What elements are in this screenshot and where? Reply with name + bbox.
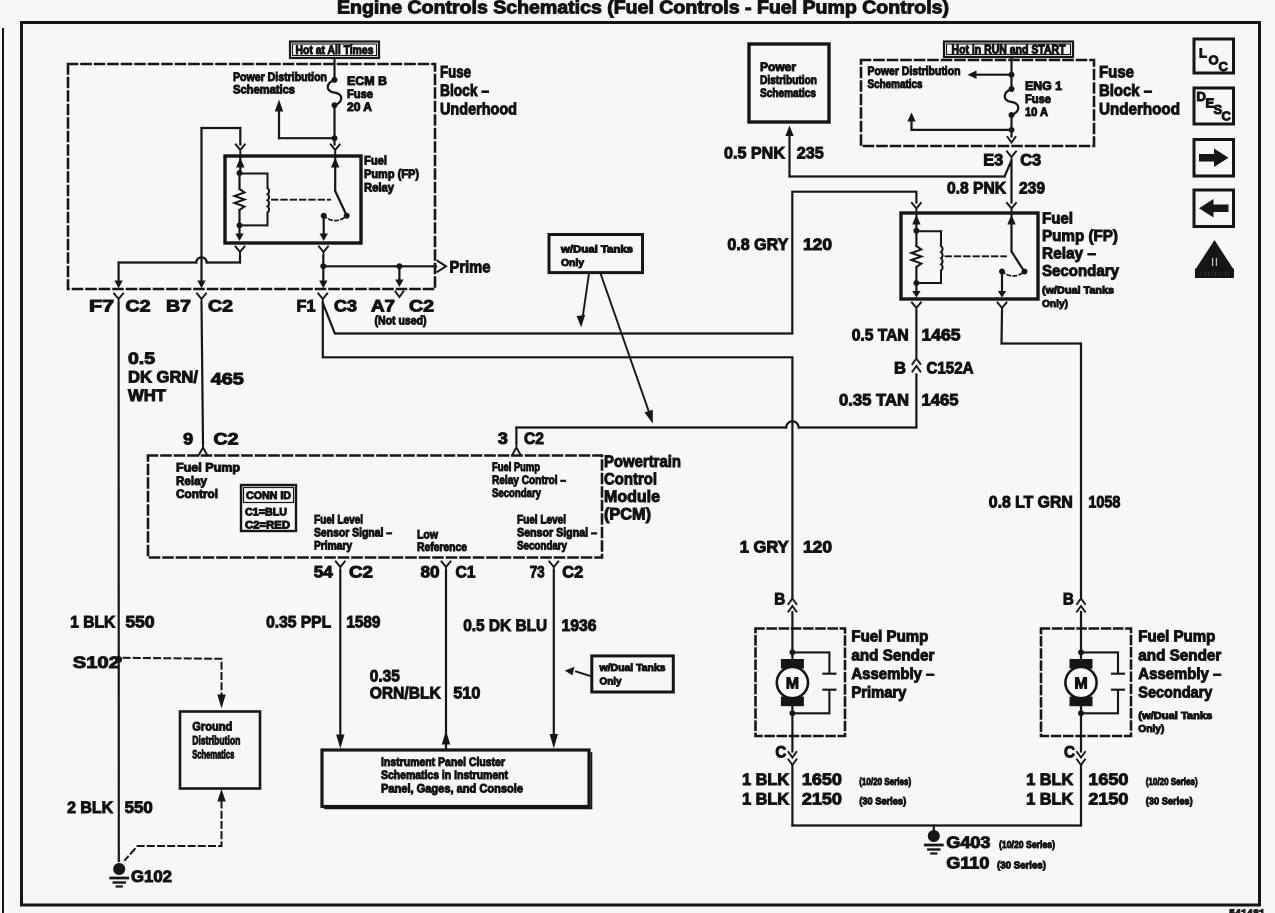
svg-text:(30 Series): (30 Series)	[859, 796, 906, 808]
node primary pump top	[789, 649, 795, 655]
svg-text:Secondary: Secondary	[1138, 685, 1212, 702]
label 1 BLK 1650 / 2150 (secondary)	[1026, 771, 1198, 809]
svg-text:C2: C2	[214, 431, 239, 449]
svg-text:120: 120	[803, 539, 832, 557]
label Fuel Pump and Sender Assembly - Primary	[851, 629, 934, 702]
power distribution reference arrow (left)	[968, 71, 1012, 79]
callout arrow to primary feed wire	[577, 274, 589, 328]
svg-text:1 BLK: 1 BLK	[1026, 791, 1073, 809]
svg-text:Underhood: Underhood	[1099, 101, 1180, 119]
svg-text:(w/Dual Tanks: (w/Dual Tanks	[1042, 285, 1114, 297]
connector chevron below relay1 switch	[319, 247, 328, 257]
svg-text:DK GRN/: DK GRN/	[128, 369, 198, 387]
wire 0.35 PPL 1589 (pin 54 to cluster)	[336, 571, 344, 749]
svg-text:(10/20 Series): (10/20 Series)	[859, 776, 911, 788]
svg-text:Module: Module	[604, 488, 660, 506]
title	[337, 0, 949, 18]
relay FP primary box	[225, 156, 361, 243]
connector C (primary pump)	[775, 744, 796, 766]
svg-text:(10/20 Series): (10/20 Series)	[1146, 776, 1198, 788]
fuse block underhood box (dashed)	[68, 64, 435, 289]
svg-text:Ground: Ground	[192, 720, 232, 734]
svg-text:C152A: C152A	[927, 360, 974, 378]
svg-text:1650: 1650	[1088, 771, 1128, 789]
PCM pin 80 C1	[421, 562, 476, 582]
label Fuel Level Sensor Signal - Primary (PCM)	[314, 513, 392, 553]
svg-text:3: 3	[498, 430, 508, 448]
svg-text:235: 235	[797, 145, 824, 163]
relay2 coil control lead	[912, 283, 920, 298]
label ECM B Fuse 20 A	[347, 74, 387, 114]
svg-text:Fuse: Fuse	[440, 64, 471, 82]
svg-text:Schematics: Schematics	[192, 748, 234, 762]
svg-text:L: L	[1199, 46, 1207, 61]
label Fuel Pump Relay Control - Secondary (PCM)	[492, 460, 566, 500]
svg-text:1 BLK: 1 BLK	[1026, 771, 1073, 789]
callout w/Dual Tanks Only (bottom)	[592, 656, 674, 692]
wire 0.35 TAN 1465 (PCM pin3 to C152A) with hop	[516, 375, 916, 444]
label ENG 1 Fuse 10 A	[1025, 79, 1062, 119]
svg-text:120: 120	[803, 236, 832, 254]
svg-text:Fuse: Fuse	[1099, 64, 1134, 82]
label Hot at All Times	[290, 42, 379, 59]
svg-text:1465: 1465	[922, 327, 961, 345]
svg-text:1936: 1936	[562, 617, 597, 635]
svg-text:0.35: 0.35	[370, 668, 400, 686]
relay1 dashed actuation link	[272, 199, 330, 201]
PCM box (dashed)	[148, 456, 602, 558]
svg-text:C: C	[775, 744, 786, 762]
connector chevron relay2 switch pin	[1007, 203, 1016, 213]
svg-text:Reference: Reference	[417, 540, 467, 554]
wire relay2 output to 0.8 LT GRN	[1002, 312, 1082, 598]
relay primary coil pin entry arrow	[236, 156, 244, 173]
svg-text:20 A: 20 A	[347, 100, 372, 114]
node primary pump bottom	[789, 710, 795, 716]
svg-text:Fuse: Fuse	[1025, 92, 1051, 106]
svg-text:1 GRY: 1 GRY	[740, 539, 789, 557]
OBD II icon	[1195, 240, 1234, 279]
connector A7 C2 (not used)	[371, 292, 434, 328]
svg-text:M: M	[786, 676, 799, 693]
svg-text:F7: F7	[89, 298, 114, 316]
fuel level sender (secondary)	[1081, 652, 1124, 713]
wire into primary pump	[791, 612, 793, 659]
svg-text:E3: E3	[983, 152, 1003, 170]
label 0.8 PNK 239	[947, 180, 1045, 198]
PCM pin 54 C2	[314, 562, 373, 582]
svg-text:CONN ID: CONN ID	[246, 490, 291, 502]
footer part number	[1229, 909, 1265, 913]
svg-text:II: II	[1211, 255, 1218, 270]
svg-text:Fuse: Fuse	[347, 87, 373, 101]
wire Hot in RUN to fuse ENG1	[1009, 57, 1015, 89]
coil relay1	[240, 174, 270, 226]
svg-text:Primary: Primary	[851, 685, 906, 702]
label Fuel Pump (FP) Relay - Secondary	[1042, 211, 1119, 311]
callout arrow to 0.35 TAN wire	[601, 274, 653, 424]
label Low Reference (PCM)	[417, 528, 467, 555]
svg-text:73: 73	[530, 564, 545, 582]
svg-text:1058: 1058	[1088, 494, 1120, 512]
svg-text:Panel, Gages, and Console: Panel, Gages, and Console	[381, 782, 523, 796]
svg-text:0.5: 0.5	[128, 350, 155, 368]
relay1 switch output lead	[320, 216, 328, 241]
svg-text:Control: Control	[176, 487, 218, 501]
svg-text:ORN/BLK: ORN/BLK	[370, 685, 441, 703]
wire primary pump ground lead	[791, 766, 793, 826]
svg-text:465: 465	[211, 371, 244, 389]
scan edge line left	[2, 29, 4, 913]
svg-text:Pump (FP): Pump (FP)	[1042, 228, 1118, 245]
relay2 switch output lead	[998, 272, 1006, 298]
svg-text:Relay –: Relay –	[1042, 246, 1096, 263]
svg-text:54: 54	[314, 564, 334, 582]
svg-text:(PCM): (PCM)	[604, 506, 651, 524]
PCM pin 3 C2	[498, 430, 544, 456]
label 0.5 DK GRN/WHT 465	[128, 350, 244, 405]
node relay2 coil bottom	[913, 280, 919, 286]
connector C (secondary pump)	[1064, 744, 1085, 766]
svg-text:O: O	[1209, 53, 1219, 68]
connector chevron below relay2 coil	[912, 303, 921, 313]
power distribution reference arrow (up)	[275, 100, 335, 139]
node relay1 coil bottom	[237, 222, 243, 228]
svg-text:G403: G403	[946, 834, 990, 852]
svg-text:1 BLK: 1 BLK	[70, 614, 115, 632]
label Fuel Pump Relay Control (PCM)	[176, 461, 240, 502]
svg-text:1 BLK: 1 BLK	[742, 771, 789, 789]
connector B7 C2	[166, 294, 233, 316]
connector B (primary pump)	[774, 591, 796, 612]
box Ground Distribution Schematics	[180, 712, 260, 789]
PCM pin 9 C2	[183, 431, 238, 456]
connector chevron relay2 coil pin	[912, 203, 921, 213]
svg-text:Schematics in Instrument: Schematics in Instrument	[381, 768, 508, 782]
label 0.35 PPL 1589	[266, 614, 380, 632]
svg-text:D: D	[1197, 89, 1206, 104]
ground G102	[111, 863, 172, 887]
svg-text:C2=RED: C2=RED	[245, 520, 290, 532]
node secondary pump top	[1078, 649, 1084, 655]
svg-text:Hot at All Times: Hot at All Times	[296, 43, 374, 57]
svg-text:G102: G102	[131, 868, 172, 886]
svg-text:C1: C1	[456, 564, 476, 582]
svg-text:Power Distribution: Power Distribution	[868, 64, 961, 78]
svg-text:Primary: Primary	[314, 539, 352, 553]
label Prime	[450, 259, 491, 277]
svg-text:Block –: Block –	[1099, 82, 1152, 100]
label Fuel Level Sensor Signal - Secondary (PCM)	[517, 513, 597, 553]
connector chevron at FP relay pin 1 (switch feed)	[331, 145, 340, 155]
label Fuel Pump (FP) Relay	[364, 154, 419, 195]
wire fuse to relay pin (node)	[332, 105, 338, 144]
svg-text:239: 239	[1019, 180, 1045, 198]
wire primary pump to C connector	[791, 706, 793, 752]
svg-text:C3: C3	[334, 298, 357, 316]
svg-text:B7: B7	[166, 298, 191, 316]
node relay1 coil top	[237, 170, 243, 176]
label 0.35 TAN 1465	[839, 392, 959, 410]
box Power Distribution Schematics (reference)	[749, 44, 829, 122]
relay2 switch travel arc (dashed)	[1002, 272, 1025, 277]
svg-text:WHT: WHT	[128, 387, 166, 405]
relay2 switch pivot entry arrow	[1007, 213, 1015, 252]
fuse block underhood box 2 (dashed)	[861, 60, 1094, 146]
wire 0.5 TAN 1465 (relay2 coil to C152A)	[915, 311, 917, 358]
svg-text:Prime: Prime	[450, 259, 491, 277]
label 0.35 ORN/BLK 510	[370, 668, 481, 703]
wire relay1 coil-gnd to F7 with hop over B7 wire	[114, 256, 240, 288]
svg-text:9: 9	[183, 431, 193, 449]
svg-text:B: B	[1063, 591, 1074, 609]
svg-text:0.35 PPL: 0.35 PPL	[266, 614, 331, 632]
relay FP secondary box	[901, 213, 1038, 299]
fuse ECM B 20A	[328, 77, 342, 108]
svg-text:Powertrain: Powertrain	[604, 453, 681, 471]
fuse ENG 1 10A	[1005, 86, 1019, 118]
relay2 switch blade	[999, 252, 1028, 275]
svg-text:1589: 1589	[346, 614, 380, 632]
svg-text:(30 Series): (30 Series)	[997, 860, 1046, 872]
svg-text:C: C	[1219, 59, 1229, 74]
svg-text:0.8 GRY: 0.8 GRY	[727, 236, 788, 254]
svg-text:Fuel Pump: Fuel Pump	[851, 629, 928, 646]
svg-text:Pump (FP): Pump (FP)	[364, 167, 419, 181]
label Fuse Block - Underhood (right)	[1099, 64, 1180, 119]
svg-text:Distribution: Distribution	[192, 734, 240, 748]
svg-text:C3: C3	[1020, 152, 1041, 170]
svg-text:ENG 1: ENG 1	[1025, 79, 1062, 93]
motor M (secondary pump)	[1065, 659, 1096, 706]
label Fuel Pump and Sender Assembly - Secondary	[1138, 629, 1221, 736]
label 0.8 GRY 120	[727, 236, 832, 254]
svg-text:Secondary: Secondary	[517, 539, 567, 553]
svg-text:Engine Controls Schematics (Fu: Engine Controls Schematics (Fuel Control…	[337, 0, 949, 18]
svg-text:Fuel: Fuel	[364, 154, 387, 168]
connector F1 C3	[297, 294, 358, 316]
dashed reference ground box to G102	[125, 789, 226, 860]
label 1 BLK 1650 / 2150 (primary)	[742, 771, 911, 809]
svg-text:M: M	[1074, 676, 1087, 693]
relay1 switch pivot entry arrow	[331, 156, 339, 191]
fuse block exit chevron	[1008, 137, 1016, 143]
label Power Distribution Schematics (right fuse block)	[868, 64, 961, 91]
coil relay2	[916, 231, 942, 283]
label 1 BLK 550	[70, 614, 154, 632]
wire ground bus to G403	[792, 824, 1081, 826]
label Hot in RUN and START	[944, 42, 1073, 58]
svg-text:w/Dual Tanks: w/Dual Tanks	[599, 662, 666, 674]
svg-text:C: C	[1064, 744, 1075, 762]
svg-text:C2: C2	[126, 298, 151, 316]
connector chevron below relay1 coil	[236, 247, 245, 257]
svg-text:Only: Only	[561, 257, 584, 269]
svg-text:550: 550	[126, 614, 155, 632]
svg-text:Block –: Block –	[440, 82, 489, 100]
svg-text:C: C	[1222, 109, 1232, 124]
fuel pump and sender assembly secondary box (dashed)	[1041, 629, 1131, 737]
dashed reference S102 to ground distribution box	[124, 658, 226, 709]
wire coil pin to B7 branch	[197, 128, 240, 288]
svg-text:Fuel Pump: Fuel Pump	[176, 461, 240, 475]
connector C152A (B)	[894, 359, 974, 378]
wire F1 output upper branch (0.8 GRY feed)	[323, 192, 917, 334]
connector B (secondary pump)	[1063, 591, 1085, 612]
svg-text:Only): Only)	[1042, 298, 1068, 310]
svg-text:Fuel Pump: Fuel Pump	[492, 460, 540, 474]
label 0.5 DK BLU 1936	[463, 617, 596, 635]
svg-text:(30 Series): (30 Series)	[1146, 796, 1193, 808]
svg-text:Assembly –: Assembly –	[1138, 666, 1221, 683]
wire secondary pump ground lead	[1080, 766, 1082, 826]
label G403 G110	[946, 834, 1055, 873]
connector chevron below relay2 switch	[998, 303, 1007, 313]
relay2 coil pin entry arrow	[912, 213, 920, 231]
ground G403/G110	[925, 826, 942, 854]
svg-text:2150: 2150	[1088, 791, 1128, 809]
svg-text:Distribution: Distribution	[760, 73, 817, 87]
svg-text:and Sender: and Sender	[1138, 648, 1221, 665]
svg-text:2 BLK: 2 BLK	[67, 799, 113, 817]
wire secondary pump to C connector	[1080, 706, 1082, 752]
svg-text:Power: Power	[760, 60, 796, 74]
svg-text:2150: 2150	[802, 791, 842, 809]
label 1 GRY 120	[740, 539, 832, 557]
svg-text:Relay: Relay	[364, 181, 394, 195]
resistor relay2	[911, 231, 921, 283]
svg-text:OBD II: OBD II	[1200, 270, 1230, 279]
label 0.5 TAN 1465	[852, 327, 961, 345]
svg-text:C2: C2	[562, 564, 583, 582]
svg-text:Schematics: Schematics	[868, 77, 923, 91]
relay2 dashed actuation link	[946, 255, 1007, 257]
box Instrument Panel Cluster	[322, 750, 592, 809]
svg-text:Relay: Relay	[176, 474, 207, 488]
svg-text:F1: F1	[297, 298, 316, 316]
node secondary pump bottom	[1078, 710, 1084, 716]
label 0.5 PNK 235	[724, 145, 824, 163]
svg-text:0.35 TAN: 0.35 TAN	[839, 392, 909, 410]
svg-text:Fuel Pump: Fuel Pump	[1138, 629, 1215, 646]
svg-text:Fuel: Fuel	[1042, 211, 1073, 228]
wire 0.8 PNK 239 (E3 to relay2 switch)	[1010, 161, 1012, 203]
relay1 switch blade	[321, 191, 350, 219]
DESC button	[1194, 88, 1234, 124]
svg-text:541481: 541481	[1229, 909, 1265, 913]
svg-text:B: B	[774, 591, 785, 609]
label Power Distribution Schematics (left fuse block)	[233, 70, 327, 97]
wire 1 BLK 550 (F7 to S102 to G102)	[117, 303, 119, 861]
svg-text:0.8 LT GRN: 0.8 LT GRN	[989, 494, 1073, 512]
svg-text:80: 80	[421, 564, 440, 582]
svg-text:1 BLK: 1 BLK	[742, 791, 789, 809]
svg-text:Sensor Signal –: Sensor Signal –	[314, 526, 392, 540]
svg-text:550: 550	[125, 799, 153, 817]
resistor relay1	[235, 173, 245, 210]
wire into secondary pump	[1080, 612, 1082, 659]
label 0.8 LT GRN 1058	[989, 494, 1121, 512]
svg-text:Fuel Level: Fuel Level	[517, 513, 566, 527]
wire A7 stub (not used)	[395, 266, 403, 287]
connector chevron at FP relay coil pin	[236, 145, 245, 155]
callout arrow to 0.5 DK BLU wire	[565, 667, 592, 677]
relay1 switch travel arc (dashed)	[324, 216, 347, 221]
svg-text:S102: S102	[73, 654, 120, 672]
label 2 BLK 550	[67, 799, 153, 817]
svg-text:0.5 TAN: 0.5 TAN	[852, 327, 909, 345]
svg-text:0.5 PNK: 0.5 PNK	[724, 145, 785, 163]
resistor relay1 lower lead	[238, 210, 240, 225]
svg-text:w/Dual Tanks: w/Dual Tanks	[560, 244, 633, 256]
svg-text:Schematics: Schematics	[233, 83, 295, 97]
motor M (primary pump)	[777, 659, 808, 706]
svg-text:0.5 DK BLU: 0.5 DK BLU	[463, 617, 547, 635]
svg-text:1650: 1650	[802, 771, 842, 789]
CONN ID legend box	[241, 485, 296, 532]
prime connector arrow	[438, 261, 447, 272]
svg-text:C2: C2	[524, 430, 544, 448]
svg-text:Assembly –: Assembly –	[851, 666, 934, 683]
svg-text:Secondary: Secondary	[1042, 263, 1119, 280]
svg-text:1465: 1465	[922, 392, 959, 410]
svg-text:Underhood: Underhood	[440, 101, 517, 119]
svg-text:Schematics: Schematics	[760, 86, 816, 100]
svg-text:ECM B: ECM B	[347, 74, 387, 88]
svg-text:Only): Only)	[1138, 723, 1164, 735]
svg-text:10 A: 10 A	[1025, 105, 1048, 119]
wire F1 output lower branch (1 GRY feed to primary pump)	[323, 303, 793, 597]
node relay2 coil top	[913, 228, 919, 234]
svg-text:0.8 PNK: 0.8 PNK	[947, 180, 1006, 198]
svg-text:Instrument Panel Cluster: Instrument Panel Cluster	[381, 755, 505, 769]
relay1 coil ground lead (to F7)	[235, 225, 243, 241]
connector F7 C2	[89, 294, 151, 316]
connector E3 C3	[983, 152, 1041, 170]
svg-text:B: B	[894, 360, 906, 378]
svg-text:Control: Control	[604, 471, 657, 489]
svg-text:and Sender: and Sender	[851, 648, 934, 665]
svg-text:Hot in RUN and START: Hot in RUN and START	[952, 43, 1067, 57]
svg-text:C1=BLU: C1=BLU	[245, 507, 287, 519]
next-page arrow button	[1194, 140, 1234, 177]
svg-text:(w/Dual Tanks: (w/Dual Tanks	[1138, 710, 1212, 722]
prev-page arrow button	[1194, 190, 1234, 227]
PCM pin 73 C2	[530, 562, 584, 582]
svg-text:G110: G110	[946, 855, 989, 873]
wire from Hot at All Times to fuse	[333, 58, 335, 80]
splice S102	[73, 654, 122, 672]
svg-text:C2: C2	[208, 298, 233, 316]
svg-text:Secondary: Secondary	[492, 486, 541, 500]
svg-text:Only: Only	[600, 676, 622, 688]
fuel pump and sender assembly primary box (dashed)	[756, 629, 846, 737]
power distribution reference arrow (up, right block)	[907, 113, 1014, 137]
svg-text:510: 510	[453, 685, 480, 703]
wire 0.35 ORN/BLK 510 (pin 80 to cluster)	[442, 571, 450, 749]
svg-text:(Not used): (Not used)	[375, 314, 427, 328]
svg-text:C2: C2	[349, 564, 373, 582]
svg-text:Sensor Signal –: Sensor Signal –	[517, 526, 597, 540]
wire 0.5 DK BLU 1936 (pin 73 to cluster)	[550, 571, 558, 749]
svg-text:Fuel Level: Fuel Level	[314, 513, 363, 527]
label Powertrain Control Module (PCM)	[604, 453, 681, 524]
svg-text:Relay Control –: Relay Control –	[492, 473, 566, 487]
wire relay1 output to F1	[319, 266, 327, 288]
label Fuse Block - Underhood (left)	[440, 64, 517, 119]
fuel level sender (primary)	[792, 652, 835, 713]
svg-text:(10/20 Series): (10/20 Series)	[999, 839, 1055, 851]
